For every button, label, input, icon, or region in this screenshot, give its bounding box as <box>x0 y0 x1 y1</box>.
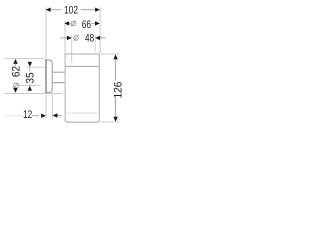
extension line ring top (for 35) <box>27 66 45 68</box>
glass top rim line <box>65 53 100 55</box>
arm top <box>53 71 65 73</box>
svg-text:12: 12 <box>23 109 32 121</box>
svg-text:48: 48 <box>85 33 94 45</box>
wall plate (escutcheon) <box>46 60 52 92</box>
svg-text:102: 102 <box>64 5 78 17</box>
extension line plate back (below plate, for 12) <box>45 93 47 118</box>
extension line cup rim top (for 126) <box>101 53 120 55</box>
glass bottom accent line <box>67 121 97 123</box>
extension line holder bottom (for 35) <box>19 85 41 87</box>
dimension dia 66 <box>64 19 99 31</box>
svg-text:66: 66 <box>82 19 91 31</box>
svg-text:62: 62 <box>11 66 23 77</box>
tumbler glass side and bottom outline <box>65 54 99 122</box>
extension line cup back (for dia 66) <box>64 21 66 54</box>
dimension 126 (rotated, right) <box>112 54 124 121</box>
dimension 35 (rotated, left) <box>24 62 36 91</box>
wall plate back edge <box>45 60 47 93</box>
extension line plate front (below plate, for 12) <box>52 93 54 118</box>
holder ring top line <box>65 65 99 67</box>
dimension dia 48 <box>60 33 105 45</box>
extension line left of dia 48 <box>71 35 73 62</box>
svg-text:126: 126 <box>112 82 124 99</box>
dimension 12 (bottom) <box>4 109 62 121</box>
extension line glass bottom (for 126) <box>100 121 120 123</box>
extension line plate bottom (for dia 62) <box>5 93 63 95</box>
glass inner bottom line <box>66 112 98 114</box>
extension line left of 102 (wall face, above plate) <box>45 7 47 59</box>
extension line right of dia 48 <box>94 35 96 52</box>
extension line plate top (for dia 62) <box>5 57 45 59</box>
arm bottom <box>53 82 65 84</box>
extension line right of 102 (cup front), runs to cup rim <box>99 7 101 53</box>
svg-text:35: 35 <box>24 72 36 83</box>
dimension 102 <box>46 5 100 17</box>
dimension dia 62 (rotated, left) <box>11 59 23 93</box>
